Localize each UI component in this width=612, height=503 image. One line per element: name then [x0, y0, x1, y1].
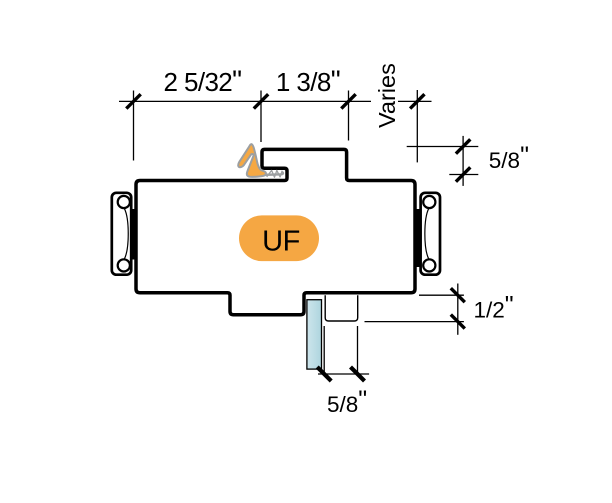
right 5/8 dimension line — [462, 136, 464, 186]
right 5/8 lower tick — [456, 167, 470, 181]
top dimension line — [119, 100, 432, 102]
svg-text:5/8": 5/8" — [327, 386, 367, 417]
right 5/8 lower extension line — [449, 174, 478, 176]
carpet strip icon gray tail thread zigzag — [267, 170, 283, 177]
right bracket spring arc — [425, 208, 429, 259]
bottom 5/8 dimension line — [318, 373, 369, 375]
right bracket filler bar — [413, 209, 420, 267]
left mounting bracket body — [112, 193, 131, 275]
right 1/2 lower extension line — [365, 321, 464, 323]
right 1/2 upper tick — [451, 288, 465, 302]
fastener pocket — [325, 295, 358, 321]
right 5/8 upper tick — [456, 139, 470, 153]
extension line tab right edge — [348, 91, 350, 141]
blue insert strip — [307, 300, 322, 369]
tick at tab right edge — [341, 94, 355, 108]
svg-text:1/2": 1/2" — [474, 292, 514, 323]
right 1/2 upper extension line — [419, 294, 464, 296]
bottom 5/8 left extension line — [323, 326, 325, 376]
right 1/2 dimension line — [457, 284, 459, 335]
left bracket spring arc — [124, 208, 128, 259]
left bracket top roller — [118, 196, 130, 208]
extension line body right edge — [416, 90, 418, 162]
svg-text:1 3/8": 1 3/8" — [276, 64, 340, 97]
white mask under Varies text — [371, 92, 398, 110]
left bracket bottom roller — [118, 259, 130, 271]
tick at lip left edge — [254, 94, 268, 108]
UF profile outline — [136, 149, 415, 314]
tick at body left edge — [126, 94, 140, 108]
right mounting bracket body — [421, 193, 440, 275]
carpet strip icon orange body — [238, 144, 266, 177]
bottom 5/8 left tick — [317, 367, 331, 381]
extension line body left edge — [133, 91, 135, 161]
svg-text:Varies: Varies — [374, 63, 400, 128]
bottom 5/8 right tick — [351, 367, 365, 381]
right 5/8 upper extension line — [407, 146, 479, 148]
right bracket bottom roller — [423, 259, 435, 271]
right bracket top roller — [423, 196, 435, 208]
carpet strip icon gray tail streak — [260, 173, 283, 176]
svg-text:5/8": 5/8" — [489, 142, 529, 173]
left bracket filler bar — [131, 209, 138, 260]
svg-text:UF: UF — [262, 225, 300, 257]
svg-text:2 5/32": 2 5/32" — [163, 64, 241, 97]
UF badge — [239, 215, 319, 261]
right 1/2 lower tick — [451, 315, 465, 329]
extension line lip left edge — [260, 91, 262, 143]
bottom 5/8 right extension line — [357, 326, 359, 376]
tick at body right edge — [410, 94, 424, 108]
